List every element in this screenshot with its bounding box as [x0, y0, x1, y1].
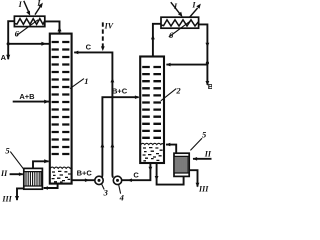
- pump 3 label tick: [102, 184, 105, 190]
- arrowhead reflux into column1: [41, 42, 46, 46]
- condenser 6 (left) coil zigzag: [14, 19, 44, 25]
- arrowhead coolant out of condenser6L: [38, 3, 43, 8]
- arrowhead product B down: [206, 81, 210, 86]
- arrowhead up pump3 riser: [101, 143, 105, 148]
- wire steam II to reboiler5L: [10, 173, 23, 175]
- wire vapor column2 to condenser6R: [153, 24, 161, 57]
- condenser 6 (left) label leader: [17, 20, 39, 36]
- wire pump3 discharge to column2 feed: [102, 97, 139, 177]
- svg-text:1: 1: [84, 76, 88, 86]
- arrowhead coolant out of condenser6R: [196, 4, 201, 9]
- svg-text:6: 6: [15, 29, 20, 39]
- svg-text:2: 2: [175, 85, 181, 95]
- reboiler 5 (right) tubes: [176, 157, 188, 173]
- column 2 trays: [142, 67, 162, 138]
- reboiler 5 (left) tubes: [26, 172, 41, 186]
- condenser 6 (left) coolant outlet arrow: [35, 7, 40, 15]
- reboiler 5 (left) tube sheets: [24, 172, 43, 186]
- svg-text:A: A: [1, 53, 7, 62]
- arrowhead feed B+C into column2: [135, 95, 140, 99]
- pump 4 hub: [116, 179, 119, 182]
- wire column1 bottoms to pump3: [72, 179, 95, 181]
- svg-text:C: C: [86, 42, 92, 51]
- svg-text:5: 5: [202, 130, 207, 140]
- arrowhead vapor into column2 from reboiler5R: [166, 143, 171, 147]
- condenser 6 (right) box: [161, 17, 199, 28]
- pump 4 label tick: [119, 184, 121, 193]
- condenser 6 (right) coolant inlet arrow: [171, 2, 180, 13]
- arrowhead coolant into condenser6R: [178, 12, 183, 17]
- column 2: [140, 57, 164, 164]
- condenser 6 (right) coil zigzag: [161, 20, 199, 26]
- svg-text:II: II: [204, 150, 212, 159]
- reboiler 5 (left) shell: [24, 168, 43, 189]
- arrowhead vapor up column1: [58, 26, 62, 31]
- svg-text:I: I: [191, 1, 196, 10]
- svg-text:III: III: [1, 194, 12, 203]
- svg-text:B+C: B+C: [112, 87, 128, 96]
- arrowhead coolant into condenser6L: [26, 11, 30, 16]
- reboiler 5 (right) shell: [174, 153, 189, 176]
- wire condensate III from reboiler5R: [189, 170, 197, 186]
- reboiler 5 (right) label leader: [190, 138, 202, 150]
- svg-text:II: II: [0, 169, 8, 178]
- pump 3 hub: [98, 179, 101, 182]
- arrowhead feed A+B into column1: [44, 100, 49, 104]
- svg-text:B: B: [208, 82, 212, 91]
- column 1 trays (dashed plates): [52, 42, 70, 154]
- reboiler 5 (right) tube sheets: [174, 156, 189, 173]
- arrowhead reflux into column2: [166, 63, 171, 67]
- svg-text:5: 5: [5, 145, 10, 155]
- svg-text:4: 4: [119, 193, 124, 203]
- wire reflux into column2: [166, 64, 207, 66]
- condenser 6 (left) box: [14, 16, 44, 26]
- arrowhead condensate III down (right): [196, 183, 200, 188]
- column 2 liquid speckles: [143, 148, 163, 161]
- arrowhead vapor up column2: [151, 35, 155, 40]
- column 1: [50, 34, 72, 184]
- arrowhead steam II into reboiler5R: [193, 157, 198, 161]
- arrowhead up pump4 riser (upper): [111, 78, 115, 83]
- svg-text:IV: IV: [104, 22, 114, 31]
- arrowhead bottoms into pump3: [85, 178, 90, 182]
- arrowhead up pump4 riser: [111, 143, 115, 148]
- svg-text:I: I: [18, 0, 23, 9]
- pump 4: [113, 176, 121, 184]
- column 1 liquid surface: [50, 167, 72, 168]
- wire column2 C draw to pump4: [122, 163, 150, 180]
- column 2 liquid surface: [141, 143, 164, 144]
- column 1 liquid speckles: [52, 171, 71, 182]
- condenser 6 (right) coolant outlet arrow: [190, 8, 198, 17]
- wire steam II to reboiler5R: [193, 158, 212, 160]
- arrowhead C into pump4: [127, 178, 131, 182]
- arrowhead IV onto solvent line: [101, 46, 105, 51]
- condenser 6 (right) label leader: [169, 21, 191, 37]
- svg-text:A+B: A+B: [19, 92, 35, 101]
- arrowhead condensate III down (left): [15, 196, 19, 201]
- arrowhead C draw down from column2: [149, 167, 153, 172]
- wire column1 sump to reboiler5L: [44, 184, 58, 188]
- junction node A-split: [7, 42, 10, 45]
- svg-text:B+C: B+C: [77, 168, 93, 177]
- arrowhead product A down: [6, 55, 10, 60]
- wire condensate III from reboiler5L: [17, 188, 24, 200]
- arrowhead vapor into column1 from reboiler5L: [44, 159, 49, 163]
- wire solvent IV makeup (dashed): [102, 22, 104, 46]
- wire reboiler5L vapor to column1: [33, 161, 49, 168]
- arrowhead steam II into reboiler5L: [19, 172, 24, 176]
- svg-text:C: C: [133, 171, 139, 180]
- svg-text:6: 6: [169, 30, 174, 40]
- wire condenser6L outlet to node A-split: [8, 21, 14, 59]
- svg-text:III: III: [198, 184, 209, 193]
- arrowhead loop down from column2 sump: [155, 176, 159, 181]
- wire reflux node A-split to column1 top: [8, 43, 50, 45]
- wire column2 sump loop down: [157, 163, 184, 185]
- reboiler 5 (left) label leader: [10, 152, 24, 170]
- svg-text:3: 3: [103, 187, 109, 197]
- arrowhead solvent C into column1: [74, 51, 79, 55]
- column 1 label leader: [70, 79, 84, 89]
- wire reboiler5R vapor to column2: [166, 145, 176, 154]
- condenser 6 (left) coolant inlet arrow: [24, 1, 29, 12]
- wire pump4 discharge riser: [74, 52, 113, 177]
- wire A+B feed: [13, 101, 49, 103]
- column 2 label leader: [161, 89, 177, 101]
- arrowhead liquid into reboiler5L: [43, 186, 48, 190]
- wire vapor column1 to condenser6L: [45, 21, 60, 33]
- wire condenser6R outlet down: [199, 24, 208, 84]
- arrowhead distillate down to node B-split: [206, 43, 210, 48]
- pump 3: [95, 176, 103, 184]
- junction node B-split: [206, 61, 209, 64]
